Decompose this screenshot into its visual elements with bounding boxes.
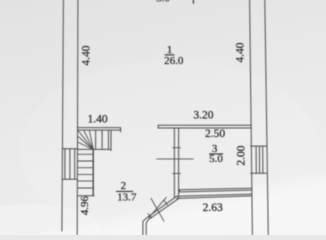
stair: winder fan line 1 (78, 131, 93, 150)
stair: upper flight tread 1 (95, 130, 97, 149)
door D2 jamb tick upper (164, 200, 168, 204)
wall: room3 left wall double line (173, 128, 175, 197)
svg-text:4.96: 4.96 (79, 195, 91, 215)
stair: winder fan line 5 (78, 142, 93, 149)
door D1 jamb tick bottom (173, 172, 181, 174)
stair: upper flight tread 2 (101, 130, 103, 149)
svg-text:1.40: 1.40 (88, 113, 108, 125)
photo lighting highlight center (20, 60, 320, 240)
stair: upper flight tread 3 (108, 130, 110, 149)
wall: room3 top wall (3.20) double line (158, 124, 251, 126)
stair: winder fan line 2 (84, 131, 93, 150)
wire: right wall outer line (265, 0, 269, 235)
stair: upper flight bottom edge (78, 148, 112, 150)
window W2 in right wall (251, 146, 267, 173)
stair: winder fan line 3 (90, 131, 94, 150)
stair: lower flight treads (78, 154, 93, 188)
svg-text:4.40: 4.40 (234, 42, 246, 62)
photo lighting highlight bottom-left (0, 204, 100, 240)
label: room 2 fraction bar (116, 191, 133, 192)
svg-text:3.20: 3.20 (193, 110, 213, 122)
svg-text:2.00: 2.00 (236, 145, 248, 165)
stair: lower flight bottom cap (78, 195, 94, 197)
svg-text:5.0: 5.0 (209, 153, 223, 165)
stair: lower flight right side (92, 150, 94, 196)
wall: room3 bottom wall double line (180, 188, 252, 190)
svg-text:3.0: 3.0 (156, 0, 170, 4)
tick: cropped dimension tick at top (192, 0, 194, 3)
window W1 in left wall (62, 149, 77, 179)
wall: diagonal bay wall inner (146, 198, 179, 235)
door D2 cross stroke A (151, 198, 164, 221)
svg-text:4.40: 4.40 (80, 45, 92, 65)
svg-text:13.7: 13.7 (117, 191, 137, 203)
wire: left wall inner line (76, 0, 79, 235)
svg-text:26.0: 26.0 (164, 55, 184, 67)
svg-text:2.63: 2.63 (203, 202, 223, 214)
stair: upper flight right edge (110, 130, 112, 150)
stair: winder fan line 4 (78, 137, 93, 150)
wire: right wall inner line (250, 0, 253, 235)
door D1 leaf dash (157, 158, 193, 160)
label: room 3 fraction bar (209, 153, 223, 154)
svg-text:2.50: 2.50 (205, 128, 225, 140)
stair: landing right end cap (120, 128, 122, 132)
stair: top landing bar double line (1.40) (78, 127, 121, 129)
door D1 in room3 left wall: jamb tick top (173, 147, 181, 149)
label: room 1 fraction bar (165, 54, 175, 55)
door D2 cross stroke B (149, 197, 167, 218)
door D2 jamb tick lower (148, 214, 152, 218)
wire: left wall outer line (62, 0, 64, 231)
wall: lower room top wall double line (177, 194, 252, 196)
wall: diagonal bay wall outer (143, 196, 177, 235)
